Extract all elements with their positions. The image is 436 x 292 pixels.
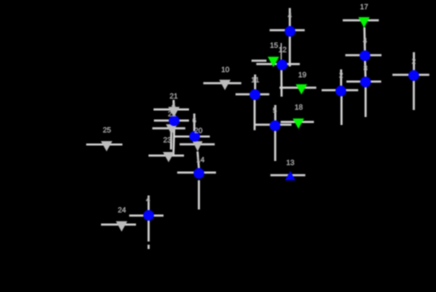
wire node 17 bar bbox=[343, 19, 379, 21]
wire node 6 bar bbox=[175, 135, 210, 137]
blue circle node 6 bbox=[189, 131, 200, 142]
wire node8 bar bbox=[346, 81, 381, 83]
blue circle node 12 bbox=[277, 60, 288, 71]
blue circle node 2 bbox=[408, 70, 419, 81]
net label 5 bbox=[273, 108, 277, 113]
blue circle node 8 bbox=[360, 77, 371, 88]
wire node 12 bar bbox=[256, 63, 300, 65]
wire node 4c bar bbox=[129, 215, 163, 217]
gray triangle node 24 bbox=[116, 221, 127, 231]
wire node 6 up bbox=[193, 114, 195, 132]
wire node 21 stub bbox=[173, 100, 175, 107]
net label 6 bbox=[193, 118, 196, 123]
gray triangle node 20 bbox=[193, 141, 203, 151]
wire 22c to 23 bbox=[172, 125, 175, 155]
gray triangle node 21 bbox=[168, 107, 179, 117]
wire node 19 bar bbox=[280, 87, 317, 89]
green triangle node 18 bbox=[293, 119, 304, 129]
net label 4 on A1 edge bbox=[288, 13, 292, 18]
label 14 bbox=[197, 157, 204, 162]
label 18 bbox=[295, 104, 302, 109]
wire node3 to node8 bbox=[364, 60, 367, 77]
blue circle node C341 bbox=[335, 86, 346, 97]
wire node 12 down bbox=[280, 70, 282, 97]
wire node 20 bar bbox=[180, 143, 215, 145]
wire node 5 bar bbox=[255, 124, 291, 126]
wire node3 bar bbox=[345, 54, 381, 56]
blue circle node 5 bbox=[270, 120, 281, 131]
wire node 5 up bbox=[274, 105, 276, 121]
label 15 bbox=[270, 43, 277, 48]
wire node 14 bar bbox=[177, 172, 216, 174]
wire node C341 down bbox=[340, 96, 342, 125]
net label 2 mid bbox=[339, 72, 342, 77]
gray triangle node 23 bbox=[163, 152, 174, 162]
blue circle node 14 bbox=[194, 168, 205, 179]
wire node 12 up bbox=[280, 43, 282, 60]
net label 4 on 17 edge bbox=[363, 38, 367, 43]
label 25 bbox=[103, 127, 111, 132]
label 21 bbox=[170, 93, 177, 98]
wire 21 to 22c bbox=[173, 113, 176, 116]
blue circle node 22c bbox=[169, 115, 180, 126]
wire node 22c bar bbox=[154, 120, 189, 122]
wire node 25 bar bbox=[86, 143, 122, 145]
wire node 2 down bbox=[413, 81, 415, 110]
wire node A1 bar bbox=[270, 29, 305, 31]
wire net A1 vertical bbox=[289, 8, 291, 67]
blue circle node 3 bbox=[360, 50, 371, 61]
gray triangle node 22 bbox=[166, 124, 177, 134]
green triangle node 17 bbox=[358, 17, 369, 28]
blue circle node 4c bbox=[143, 210, 154, 221]
wire node 4c up bbox=[148, 196, 150, 212]
wire node 15 bar bbox=[252, 60, 267, 62]
wire node 5 down bbox=[274, 131, 276, 161]
label 19 bbox=[299, 72, 306, 77]
wire node 11 up bbox=[254, 75, 256, 91]
gray triangle node 25 bbox=[101, 141, 112, 151]
label 13 bbox=[287, 160, 294, 165]
label 11 bbox=[252, 77, 259, 82]
wire node 10 bar bbox=[203, 82, 241, 84]
blue circle node 11 bbox=[250, 89, 261, 100]
wire 20 to 14 bbox=[198, 152, 199, 169]
wire node8 down bbox=[365, 87, 367, 117]
wire node 11 bar bbox=[236, 93, 270, 95]
label 12 bbox=[279, 47, 286, 52]
blue circle node A1 bbox=[285, 26, 296, 37]
label 23 bbox=[164, 137, 172, 142]
net label 4 on 21 edge bbox=[172, 103, 176, 108]
label 24 bbox=[118, 207, 126, 212]
wire 17 to node3 bbox=[363, 27, 366, 51]
wire node 14 down bbox=[198, 180, 200, 209]
wire node 2 up bbox=[413, 52, 415, 70]
wire node 22 bar bbox=[152, 127, 185, 129]
wire 6 to 20 bbox=[195, 141, 197, 146]
wire node 18 bar bbox=[281, 121, 314, 123]
wire node 24 bar bbox=[101, 224, 136, 226]
wire 22 shaft bbox=[170, 131, 172, 149]
wire node 13 bar bbox=[270, 174, 305, 176]
gray triangle node 10 bbox=[219, 80, 230, 90]
wire node 23 bar bbox=[149, 155, 185, 157]
label 20 bbox=[195, 128, 203, 133]
wire node 4c down bbox=[148, 219, 150, 241]
green triangle node 19 bbox=[296, 84, 307, 94]
net label 2 right bbox=[412, 59, 415, 64]
label 22 bbox=[168, 111, 175, 116]
wire node C341 bar bbox=[322, 89, 359, 91]
net label 4 on 24 edge bbox=[146, 197, 150, 202]
wire node 21 bar bbox=[154, 108, 190, 110]
wire node C341 up bbox=[340, 69, 342, 86]
wire node 4c dash bbox=[148, 245, 150, 249]
wire node 2 bar bbox=[392, 74, 429, 76]
label 17 bbox=[361, 4, 368, 9]
blue triangle node 13 bbox=[285, 171, 296, 180]
label 10 bbox=[222, 67, 229, 72]
net label 8 bbox=[364, 65, 367, 70]
green triangle node 15 bbox=[268, 57, 279, 67]
wire node 11 down bbox=[254, 99, 256, 130]
